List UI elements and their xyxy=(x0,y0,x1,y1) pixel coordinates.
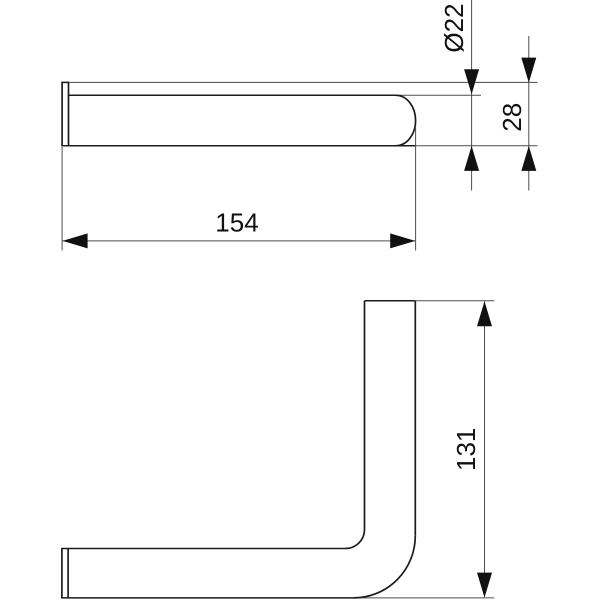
dimension line 131 xyxy=(484,302,486,598)
top extension line (131) xyxy=(415,300,494,302)
arrow 28 down xyxy=(521,58,536,83)
arrow Ø22 up xyxy=(464,146,479,171)
svg-text:28: 28 xyxy=(497,103,527,132)
wall plate left edge xyxy=(61,549,63,598)
extension line right (154) xyxy=(415,126,417,251)
arrow Ø22 down xyxy=(464,69,479,94)
inner line extension xyxy=(397,94,481,96)
arrow left 154 xyxy=(63,233,88,248)
wall plate left edge xyxy=(61,82,63,145)
arrow 131 down xyxy=(477,573,492,598)
bar bottom edge xyxy=(61,145,416,147)
bar bottom extension line xyxy=(416,145,538,147)
arrow 131 up xyxy=(477,301,492,326)
arrow right 154 xyxy=(390,233,415,248)
bottom extension line (131) xyxy=(353,597,494,599)
bar inner line (tube top tangent) xyxy=(69,94,398,96)
wall plate right edge xyxy=(67,549,69,598)
extension line left (154) xyxy=(61,147,63,251)
arrow 28 up xyxy=(521,146,536,171)
plate top edge xyxy=(61,81,69,83)
svg-text:Ø22: Ø22 xyxy=(439,3,469,52)
vertical tube top cap xyxy=(365,300,416,302)
vertical tube left edge xyxy=(364,301,366,530)
svg-text:154: 154 xyxy=(215,208,258,238)
bar top line / extension xyxy=(69,81,537,83)
horizontal tube top edge xyxy=(61,548,345,550)
dimension line 28 xyxy=(528,36,530,191)
svg-text:131: 131 xyxy=(451,428,481,471)
outer corner arc xyxy=(353,536,415,598)
dimension line 154 xyxy=(63,240,416,242)
inner corner arc xyxy=(346,530,365,549)
wall plate right edge xyxy=(68,82,70,145)
dimension line Ø22 xyxy=(471,0,473,191)
bar rounded end cap xyxy=(396,95,416,145)
horizontal tube bottom edge xyxy=(61,597,353,599)
vertical tube right edge xyxy=(414,301,416,536)
